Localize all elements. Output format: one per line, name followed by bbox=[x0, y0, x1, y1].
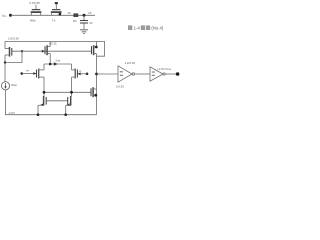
power rail VDD label 2.5/0.35 bbox=[8, 37, 19, 41]
power rail VSS bbox=[5, 114, 97, 116]
transistor M1 drain stub bbox=[39, 76, 44, 78]
wire M7 drain down right column bbox=[96, 54, 98, 115]
node Vout terminal dot bbox=[176, 72, 180, 76]
transistor M5 gate arrow bbox=[42, 50, 45, 53]
svg-text:1-4: 1-4 bbox=[134, 26, 141, 31]
transistor M3 (mirror left) channel bar bbox=[43, 96, 45, 106]
svg-text:Rb: Rb bbox=[73, 19, 77, 23]
ground (top filter) bar1 bbox=[80, 29, 88, 31]
buffer U2 triangle bbox=[150, 67, 163, 81]
svg-text:Vin: Vin bbox=[2, 14, 7, 18]
buffer U1 input glyph bbox=[120, 71, 123, 75]
node output tap dot bbox=[95, 73, 98, 76]
wire M2 source to tail bbox=[71, 64, 73, 70]
node M4 source rail dot bbox=[64, 113, 67, 116]
svg-text:2nd: 2nd bbox=[56, 59, 61, 63]
transistor M1 channel bar bbox=[38, 69, 40, 79]
capacitor Cb top plate bbox=[80, 20, 88, 22]
transistor M1b ref label bbox=[52, 19, 56, 23]
svg-text:4.7/0.35: 4.7/0.35 bbox=[29, 1, 40, 5]
wire bias mirror gate line bbox=[12, 50, 92, 52]
transistor M1a drain stub bbox=[40, 12, 42, 15]
transistor M3 gate bar bbox=[45, 97, 47, 105]
transistor M2 (diff pair right) input dot bbox=[86, 73, 89, 76]
node M6 source dot bbox=[94, 94, 97, 97]
node M2 drain junction dot bbox=[70, 91, 73, 94]
wire M2 drain down bbox=[71, 77, 73, 96]
wire M1 drain down bbox=[43, 77, 45, 96]
wire M5 source to rail bbox=[49, 42, 51, 47]
transistor M1 source stub bbox=[39, 69, 44, 71]
capacitor Cb bottom plate bbox=[80, 22, 88, 24]
transistor M5 channel bar bbox=[46, 45, 48, 55]
transistor M5 source stub bbox=[47, 46, 50, 48]
transistor M2 channel bar bbox=[74, 69, 76, 79]
wire buffer2 to output bbox=[166, 73, 177, 75]
buffer U1 label below bbox=[116, 85, 124, 89]
node M7 source dot bbox=[95, 46, 98, 49]
figure caption text bbox=[128, 25, 164, 30]
resistor Rb (filled box on wire) bbox=[73, 13, 78, 17]
transistor M1b top terminal blob bbox=[55, 2, 58, 4]
capacitor Cb ref label bbox=[89, 21, 93, 25]
transistor M7 channel bar bbox=[93, 45, 95, 55]
svg-text:+2.5V 0ms: +2.5V 0ms bbox=[157, 67, 171, 71]
transistor M1b source stub bbox=[51, 12, 53, 15]
resistor Rb ref label bbox=[73, 19, 77, 23]
buffer U2 output bubble bbox=[163, 73, 165, 75]
svg-text:vi-: vi- bbox=[79, 69, 82, 73]
wire first stage output net bbox=[44, 91, 91, 93]
transistor M7 source stub bbox=[94, 46, 97, 48]
transistor M4 source arrow bbox=[66, 103, 69, 106]
transistor M2 gate bar bbox=[76, 70, 78, 78]
transistor M1b drain stub bbox=[60, 12, 62, 15]
wire mirror gate line bbox=[46, 100, 67, 102]
capacitor Cb bottom stem bbox=[83, 23, 85, 29]
node M1 drain junction dot bbox=[43, 91, 46, 94]
transistor M1a channel bar bbox=[31, 11, 42, 13]
svg-text:Cb: Cb bbox=[89, 21, 93, 25]
transistor M1 gate label bbox=[26, 69, 30, 73]
node tail feed dot bbox=[49, 63, 52, 66]
transistor M4 gate bar bbox=[67, 97, 69, 105]
transistor M2 drain stub bbox=[72, 76, 76, 78]
svg-text:M6a: M6a bbox=[30, 19, 36, 23]
svg-text:1/0.35: 1/0.35 bbox=[116, 85, 124, 89]
transistor M2 source stub bbox=[72, 69, 76, 71]
transistor M5 drain stub bbox=[47, 53, 50, 55]
node M3 source rail dot bbox=[37, 113, 40, 116]
transistor M3 source arrow bbox=[40, 103, 43, 106]
transistor M5 (tail PMOS) value label bbox=[49, 41, 57, 45]
svg-text:(No.4): (No.4) bbox=[151, 26, 164, 31]
capacitor Cb top stem bbox=[83, 15, 85, 20]
transistor M5 gate bar bbox=[44, 46, 46, 54]
transistor M1a ref label bbox=[30, 19, 36, 23]
transistor M2 gate label bbox=[79, 69, 82, 73]
transistor M7 drain stub bbox=[94, 53, 97, 55]
svg-text:Vb: Vb bbox=[88, 11, 92, 15]
transistor M1 (diff pair left) input dot bbox=[21, 72, 24, 75]
svg-text:-2.5V: -2.5V bbox=[8, 111, 15, 115]
buffer U2 input glyph bbox=[152, 72, 155, 76]
svg-text:vi+: vi+ bbox=[26, 69, 30, 73]
buffer U1 label above bbox=[125, 61, 136, 65]
buffer U1 triangle bbox=[118, 66, 132, 82]
wire VDD rail bbox=[5, 42, 105, 57]
svg-text:Tb: Tb bbox=[52, 19, 56, 23]
node filter output dot bbox=[83, 14, 86, 17]
transistor M1a gate bar bbox=[32, 9, 40, 11]
wire M1 source to tail bbox=[43, 64, 45, 70]
wire top input rail bbox=[11, 14, 95, 16]
current source Ibias circle bbox=[1, 82, 9, 90]
wire to buffer 1 bbox=[97, 73, 119, 75]
wire buffer1 to buffer2 bbox=[135, 73, 150, 75]
transistor M8 channel bar bbox=[9, 47, 11, 57]
transistor M1a source stub bbox=[31, 12, 33, 15]
wire M3 source to VSS bbox=[37, 105, 39, 114]
transistor M1a gate lead bbox=[35, 5, 37, 10]
transistor M4 (mirror right) channel bar bbox=[70, 96, 72, 106]
ground (top filter) bar3 bbox=[83, 33, 85, 35]
svg-text:2.5/0.35: 2.5/0.35 bbox=[8, 37, 19, 41]
current label on tail line bbox=[56, 59, 61, 63]
power rail VSS label bbox=[8, 111, 15, 115]
net Vout label bbox=[157, 67, 171, 71]
wire M8 drain down to current source bbox=[4, 55, 6, 82]
node M8 gate junction dot bbox=[21, 50, 23, 52]
node after M1b dot bbox=[59, 13, 62, 16]
transistor M6 drain stub bbox=[93, 88, 96, 90]
transistor M8 drain stub bbox=[5, 54, 9, 56]
wire M5 drain to tail node bbox=[49, 54, 51, 64]
transistor M3 source stub bbox=[38, 104, 44, 106]
wire current source to VSS rail bbox=[5, 90, 7, 115]
current source Ibias arrow bbox=[5, 83, 7, 88]
transistor M8 gate bar bbox=[11, 48, 13, 56]
wire M4 source to VSS bbox=[65, 105, 67, 114]
transistor M1b gate lead bbox=[55, 4, 57, 9]
transistor M6 (2nd stage) gate bar bbox=[90, 88, 92, 96]
svg-text:Ibias: Ibias bbox=[11, 83, 18, 87]
transistor M8 (diode-connected PMOS, left) source stub bbox=[5, 48, 9, 50]
net Vb terminal label bbox=[88, 11, 92, 15]
resistor Rb value label bbox=[68, 11, 72, 15]
transistor M4 source stub bbox=[66, 104, 71, 106]
svg-text:1.2/0.35: 1.2/0.35 bbox=[125, 61, 136, 65]
wire tail node line bbox=[44, 63, 72, 65]
svg-text:Vb: Vb bbox=[68, 11, 72, 15]
transistor M1 gate lead bbox=[22, 73, 36, 75]
transistor M1b channel bar bbox=[51, 11, 62, 13]
wire M8 diode connection loop bbox=[5, 51, 22, 62]
transistor M1 gate bar bbox=[36, 70, 38, 78]
ground (top filter) bar2 bbox=[82, 31, 87, 33]
transistor M7 (top right PMOS) gate bar bbox=[91, 46, 93, 54]
wire M7 source to rail bbox=[96, 42, 98, 48]
current source Ibias label bbox=[11, 83, 18, 87]
transistor M1a (MOS switch, top) value label 4.7/0.35 bbox=[29, 1, 40, 5]
node M8 drain junction dot bbox=[4, 61, 6, 63]
transistor M2 gate arrow bbox=[78, 72, 81, 75]
buffer U1 output bubble bbox=[132, 73, 134, 75]
transistor M1b gate bar bbox=[52, 9, 60, 11]
transistor M6 channel bar bbox=[92, 87, 94, 97]
transistor M6 source stub bbox=[93, 94, 96, 96]
node Vin label bbox=[2, 14, 7, 18]
transistor M1 gate arrow bbox=[33, 72, 36, 75]
current arrow on tail line bbox=[54, 62, 58, 66]
transistor M2 gate lead bbox=[78, 73, 88, 75]
node Vin dot bbox=[9, 14, 12, 17]
